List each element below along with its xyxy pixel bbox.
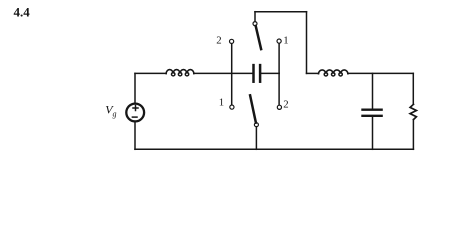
terminal 1 circle (top right) xyxy=(277,39,281,43)
svg-text:2: 2 xyxy=(216,34,221,46)
wire: top rail drop down to L2 xyxy=(306,12,308,74)
resistor R zigzag xyxy=(410,104,416,119)
wire: C2 bottom lead down to bottom rail xyxy=(372,117,374,149)
bottom switch blade xyxy=(250,95,256,122)
svg-text:1: 1 xyxy=(283,34,288,46)
capacitor C1 right plate xyxy=(259,65,262,82)
wire: pivot down to bottom rail xyxy=(255,127,257,150)
inductor L2 loop 2 xyxy=(332,73,335,76)
wire: top rail from source corner to inductor L1 xyxy=(135,72,166,74)
wire: source top lead up to top rail xyxy=(134,73,136,103)
terminal 1 circle (bottom left) xyxy=(230,105,234,109)
svg-text:2: 2 xyxy=(283,98,288,110)
wire: top rail of switch xyxy=(255,11,307,13)
plus sign of source xyxy=(133,106,138,111)
top switch pivot circle xyxy=(253,22,257,26)
terminal 2 circle (bottom right) xyxy=(277,105,281,109)
svg-text:4.4: 4.4 xyxy=(14,4,31,19)
svg-text:1: 1 xyxy=(219,96,224,108)
inductor L2 loop 1 xyxy=(324,73,327,76)
svg-text:Vg: Vg xyxy=(105,103,116,119)
terminal 2 circle (top left) xyxy=(230,39,234,43)
wire: left switch vertical line (node A) xyxy=(231,44,233,106)
wire: pivot stub up to top rail xyxy=(254,12,256,22)
wire: L2 to top-right corner (through capacitor C2 node) xyxy=(348,72,413,74)
wire: C1 to right switch line (node B) xyxy=(261,72,279,74)
wire: bottom rail xyxy=(135,148,413,150)
inductor L1 (humps) xyxy=(166,70,194,74)
bottom switch pivot circle xyxy=(254,123,258,127)
wire: right side drop to resistor R xyxy=(412,73,414,104)
inductor L2 loop 3 xyxy=(339,73,342,76)
inductor L1 loop 1 xyxy=(172,73,175,76)
top switch blade xyxy=(256,26,261,49)
source V_g (circle symbol) xyxy=(126,104,144,122)
capacitor C2 top plate xyxy=(363,108,382,110)
wire: L1 to capacitor C1 (through switch node A) xyxy=(194,72,252,74)
inductor L1 loop 2 xyxy=(178,73,181,76)
inductor L2 (humps) xyxy=(319,70,348,74)
inductor L1 loop 3 xyxy=(185,73,188,76)
wire: C2 branch from node down to top plate xyxy=(372,73,374,108)
capacitor C1 left plate xyxy=(252,65,255,82)
wire: right switch vertical line (node B) xyxy=(278,43,280,105)
wire: source bottom lead down to bottom rail xyxy=(134,122,136,150)
capacitor C2 bottom plate xyxy=(363,115,382,117)
minus sign of source xyxy=(132,116,137,118)
wire: corner to inductor L2 xyxy=(307,72,319,74)
wire: resistor bottom lead xyxy=(412,120,414,150)
